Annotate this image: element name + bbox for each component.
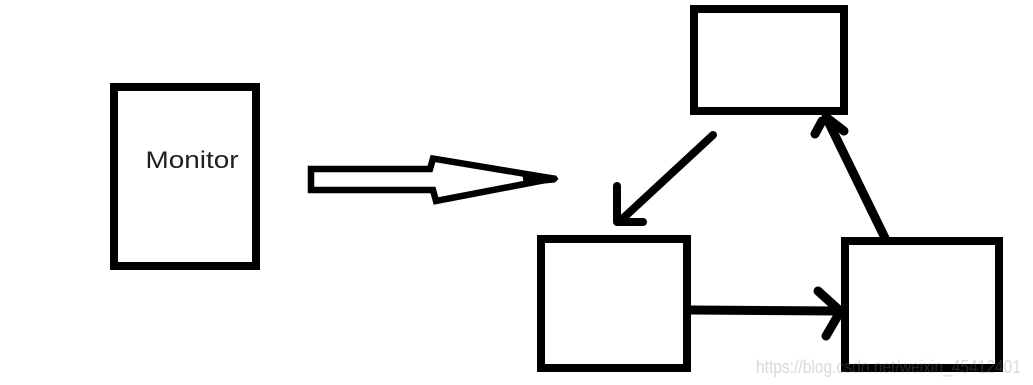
block arrow solid tip (522, 173, 559, 186)
bottom-right box (845, 241, 999, 368)
block arrow (311, 159, 553, 202)
svg-text:https://blog.csdn.net/weixin_4: https://blog.csdn.net/weixin_45412401 (756, 357, 1021, 378)
top box (694, 9, 844, 111)
arrow bottom-left box to bottom-right box (691, 291, 840, 336)
bottom-left box (541, 239, 687, 368)
svg-text:Monitor: Monitor (146, 147, 239, 174)
monitor box (114, 87, 256, 266)
arrow bottom-right box to top box (815, 117, 885, 238)
arrow top box to bottom-left box (617, 135, 713, 222)
